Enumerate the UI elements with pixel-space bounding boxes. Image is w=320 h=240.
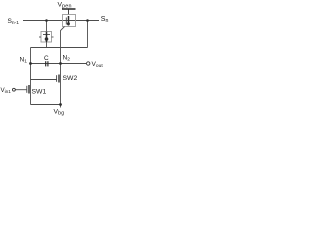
junction node N1 dot [29,62,32,65]
transistor SW2 channel [58,75,60,83]
svg-text:SW2: SW2 [63,75,78,82]
svg-text:Vpen: Vpen [58,2,72,10]
svg-text:Vin1: Vin1 [1,87,12,94]
wire middle rail N1 to Vout [31,63,87,65]
terminal Vin1 circle [13,88,16,91]
svg-text:Vbg: Vbg [54,109,65,117]
svg-text:Vout: Vout [92,61,104,69]
wire N2 column down through SW2 to bottom rail [60,64,62,105]
svg-text:C: C [44,55,49,62]
wire N1 column down through SW1 to bottom rail [30,64,32,105]
wire top junction drop to M2 [46,21,48,32]
wire M2 source stub down [46,42,48,48]
transistor M1 box [63,15,76,27]
transistor M1 channel [68,16,70,26]
svg-text:Sn-1: Sn-1 [8,18,20,26]
svg-text:Sn: Sn [101,16,109,24]
wire feedback bus y47 [31,47,88,49]
svg-text:N1: N1 [20,57,28,65]
transistor M1 body blob [67,22,70,25]
transistor M1 gate bar [65,18,67,25]
transistor M2 body blob [45,37,49,41]
svg-text:SW1: SW1 [32,89,47,96]
wire Vbg stub [60,105,62,108]
wire bottom rail to Vbg [31,104,61,106]
transistor M2 gate bar [43,34,50,36]
wire bus right corner up to top rail [87,21,89,48]
wire Vin1 lead to SW1 gate [15,89,26,91]
wire M1 gate to node N2 [61,27,65,64]
wire top rail Sn-1 to Phi-n [23,20,99,22]
junction dot bottom rail [59,103,62,106]
transistor SW2 gate bar [56,75,58,82]
capacitor C plate left [45,61,47,66]
transistor M2 box [41,32,52,43]
transistor SW1 channel [28,85,30,94]
junction dot top left [45,19,48,22]
power rail Vpen bar [62,8,76,10]
junction node N2 dot [59,62,62,65]
capacitor C plate right [47,61,49,66]
transistor SW1 gate bar [26,86,28,93]
transistor M2 left stub [39,36,41,38]
transistor M2 channel [46,32,48,43]
wire Vpen supply drop [68,9,70,15]
wire bus left corner down to N1 [30,48,32,64]
terminal Vout circle [87,62,90,65]
transistor M2 right stub [52,36,54,38]
svg-text:N2: N2 [63,55,71,63]
junction dot top right [86,19,89,22]
wire SW2 gate line from N1 column [31,79,57,81]
